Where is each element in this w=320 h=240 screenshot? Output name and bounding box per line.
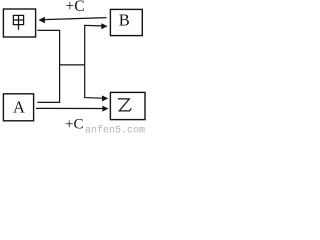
svg-text:B: B [119,11,130,30]
svg-text:A: A [13,98,25,117]
svg-text:+C: +C [66,0,85,15]
svg-text:anfen5.com: anfen5.com [85,124,145,134]
svg-text:+C: +C [65,117,83,133]
